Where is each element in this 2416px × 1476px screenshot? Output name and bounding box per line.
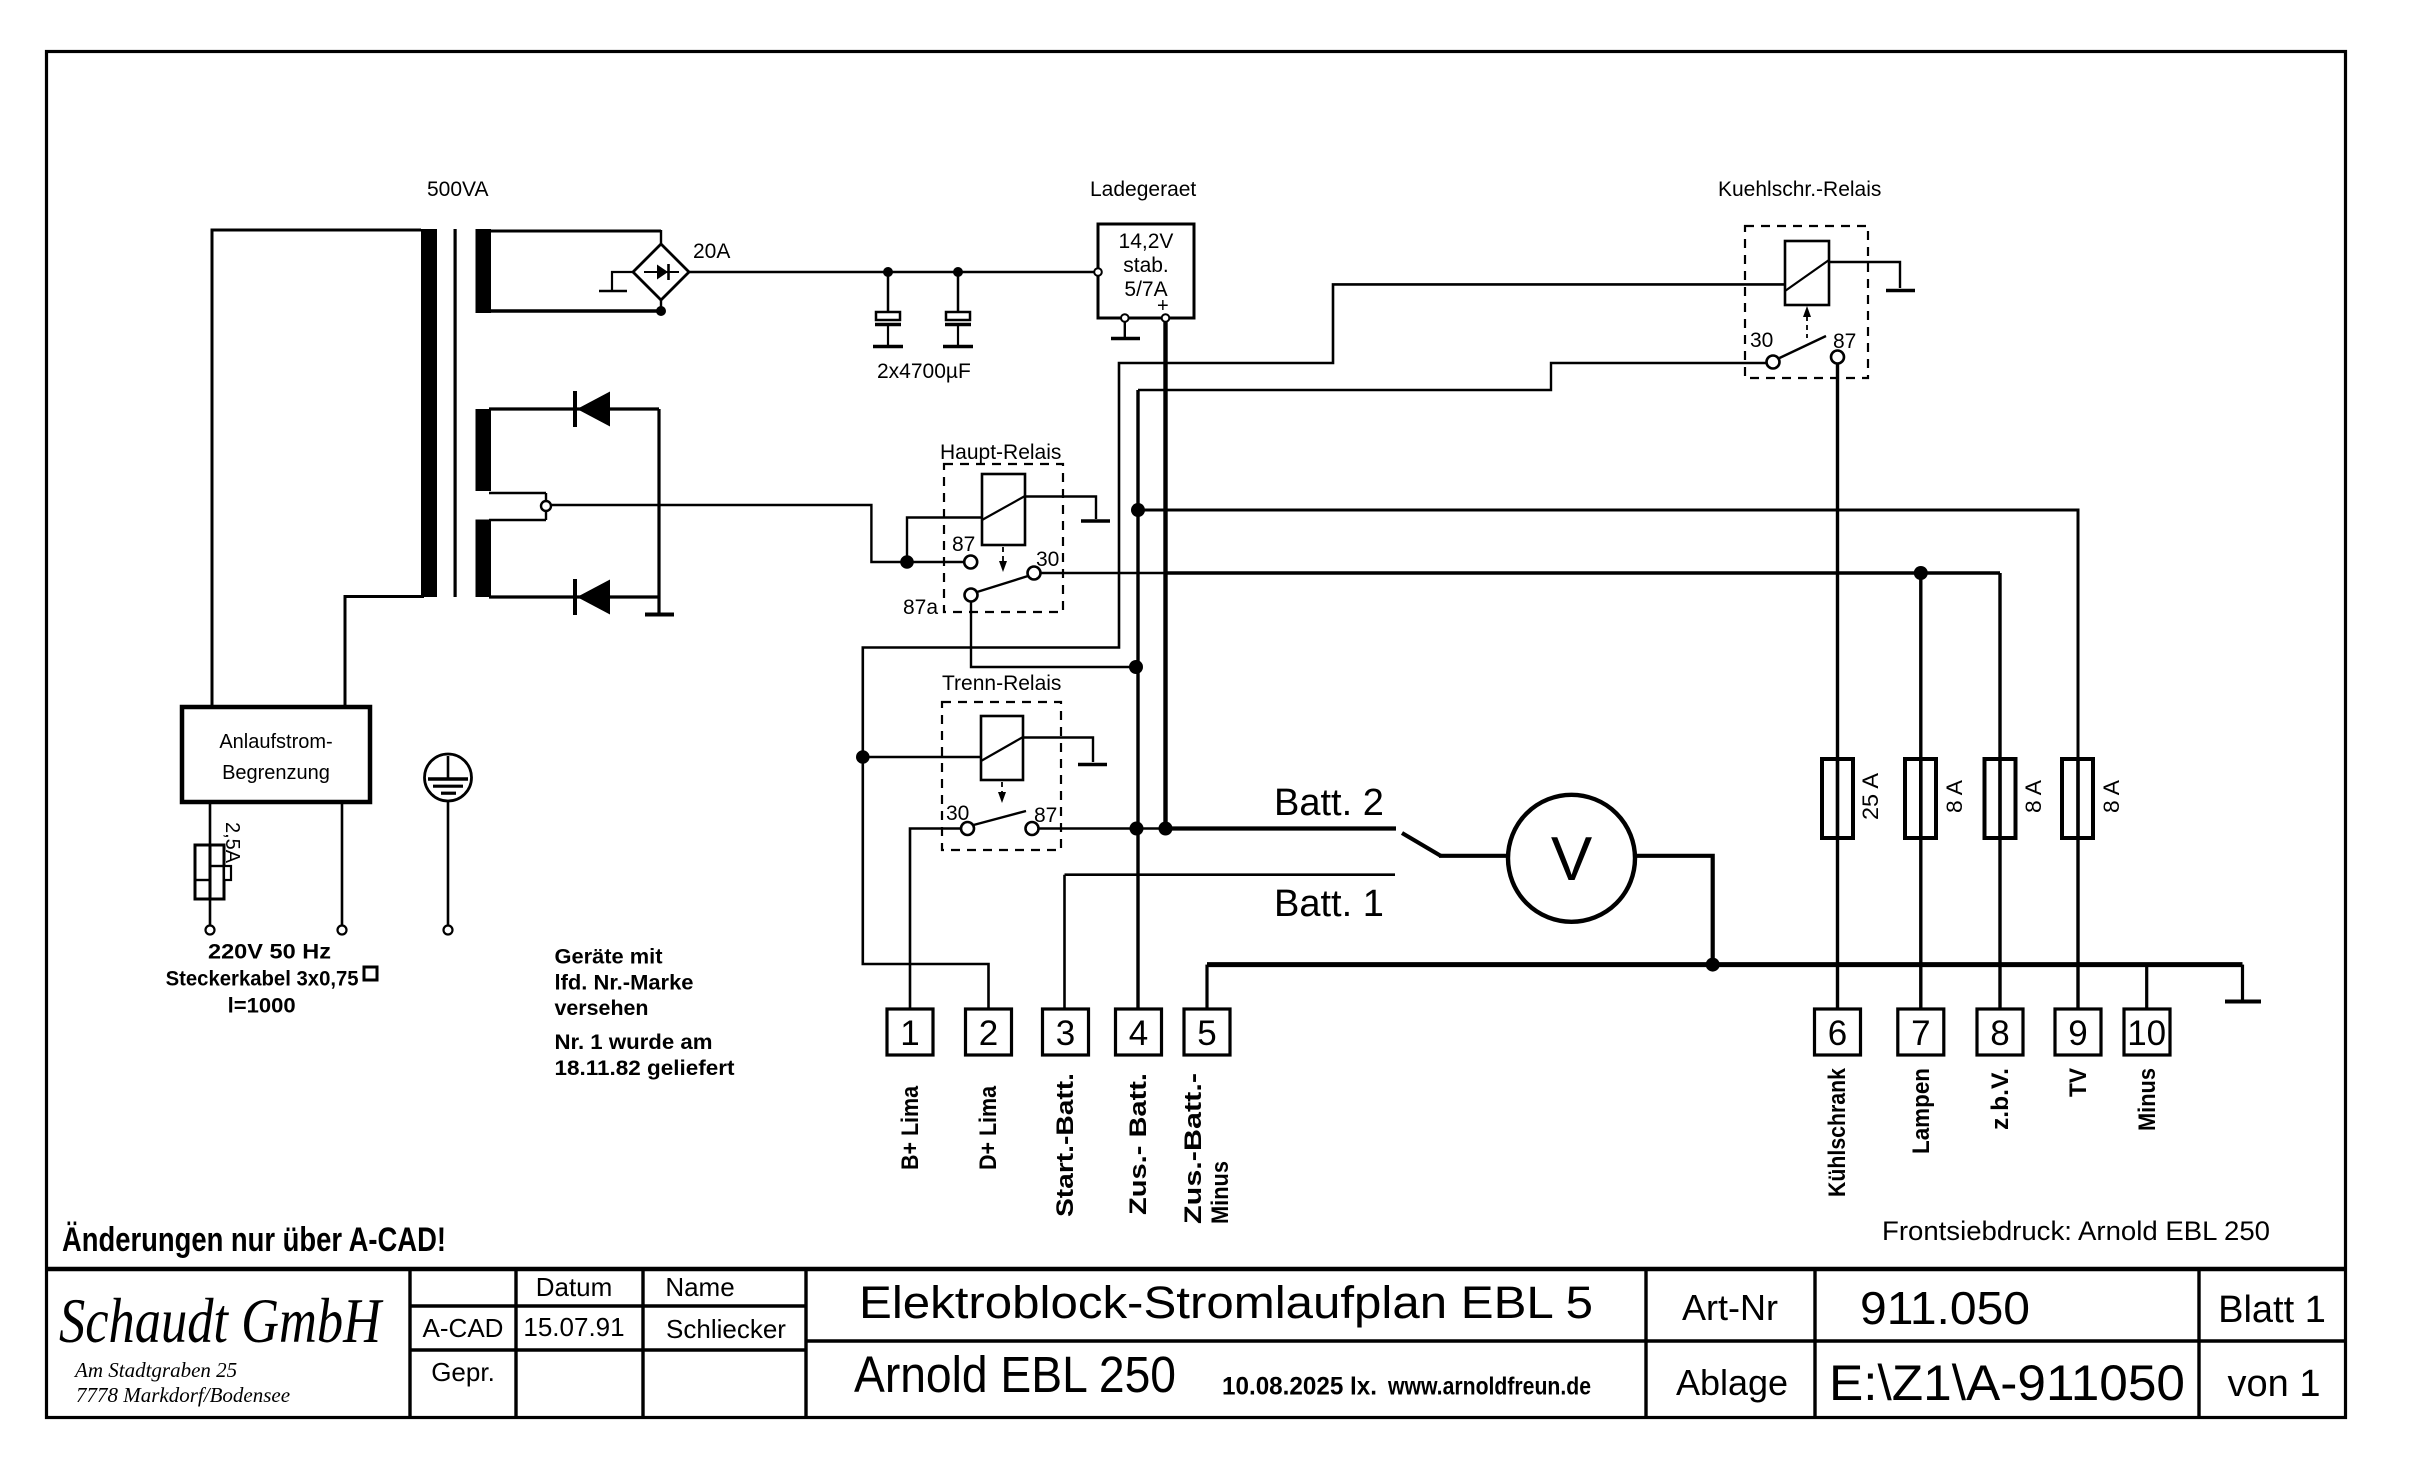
svg-text:20A: 20A bbox=[693, 240, 730, 263]
transformer T1 core bbox=[454, 229, 457, 597]
ground charger bbox=[1124, 322, 1126, 337]
bridge rectifier ground stub bbox=[612, 272, 633, 290]
svg-text:D+ Lima: D+ Lima bbox=[975, 1085, 1002, 1170]
svg-text:Start.-Batt.: Start.-Batt. bbox=[1052, 1073, 1079, 1217]
wire minus bus bbox=[1207, 962, 2243, 967]
node charger plus junction bbox=[1159, 822, 1173, 836]
terminal X7 bbox=[1898, 1009, 1944, 1055]
wire diode cathode bus bbox=[657, 409, 660, 613]
diode D2 wire bbox=[489, 595, 659, 598]
wire Batt 2 bbox=[1166, 826, 1397, 830]
node center tap bbox=[489, 492, 546, 494]
node voltmeter minus junction bbox=[1706, 958, 1720, 972]
node K1 feed junction bbox=[900, 555, 914, 569]
wire to fuse F3 bbox=[1919, 573, 1922, 759]
fuse F5 8A bbox=[2062, 759, 2093, 838]
wire K2 30 to terminal 1 bbox=[910, 829, 961, 1010]
svg-text:2: 2 bbox=[979, 1014, 998, 1053]
svg-text:Steckerkabel 3x0,75: Steckerkabel 3x0,75 bbox=[166, 967, 359, 990]
pin charger input bbox=[1094, 268, 1102, 276]
svg-text:Haupt-Relais: Haupt-Relais bbox=[940, 441, 1061, 464]
charger U1 box bbox=[1098, 224, 1194, 318]
diode D1 bbox=[573, 391, 577, 427]
svg-text:10.08.2025 lx.: 10.08.2025 lx. bbox=[1222, 1373, 1377, 1401]
relay K2 actuator arrow bbox=[1001, 782, 1003, 794]
ground minus bus bbox=[2241, 965, 2244, 1000]
relay K2 coil bbox=[981, 716, 1023, 780]
diode D2 bbox=[573, 579, 577, 615]
svg-text:6: 6 bbox=[1828, 1014, 1847, 1053]
svg-text:30: 30 bbox=[1750, 329, 1773, 352]
pin mains PE bbox=[447, 801, 450, 926]
pin charger minus bbox=[1121, 314, 1129, 322]
wire fuse F2 to terminal 6 bbox=[1836, 838, 1839, 1009]
wire K3 87 to fuse F2 bbox=[1836, 364, 1839, 760]
bridge rectifier GR1 bbox=[633, 244, 689, 300]
wire mains L to fuse bbox=[209, 802, 212, 845]
svg-text:z.b.V.: z.b.V. bbox=[1987, 1068, 2014, 1130]
svg-text:10: 10 bbox=[2127, 1014, 2166, 1053]
ground rectifier bbox=[645, 613, 674, 617]
svg-text:Arnold EBL 250: Arnold EBL 250 bbox=[854, 1346, 1176, 1403]
svg-text:Geräte mit: Geräte mit bbox=[555, 945, 663, 968]
svg-text:Begrenzung: Begrenzung bbox=[222, 762, 330, 784]
svg-text:Ladegeraet: Ladegeraet bbox=[1090, 178, 1196, 201]
node Zus-Batt junction bbox=[1130, 822, 1144, 836]
node K1 87a junction bbox=[1129, 660, 1143, 674]
svg-text:500VA: 500VA bbox=[427, 178, 489, 201]
svg-text:8: 8 bbox=[1990, 1014, 2009, 1053]
svg-text:25 A: 25 A bbox=[1858, 773, 1883, 820]
terminal X8 bbox=[1977, 1009, 2023, 1055]
terminal X5 bbox=[1184, 1009, 1230, 1055]
svg-text:3: 3 bbox=[1056, 1014, 1075, 1053]
svg-text:lfd. Nr.-Marke: lfd. Nr.-Marke bbox=[555, 972, 694, 995]
wire fuse F5 to terminal 9 bbox=[2076, 838, 2079, 1009]
svg-text:Anlaufstrom-: Anlaufstrom- bbox=[219, 731, 332, 753]
wire Zus-Batt to K3 30 bbox=[1138, 363, 1767, 390]
ground K2 coil bbox=[1078, 763, 1107, 767]
ground K3 coil bbox=[1886, 289, 1915, 293]
svg-text:Am Stadtgraben 25: Am Stadtgraben 25 bbox=[73, 1358, 237, 1382]
svg-text:Frontsiebdruck: Arnold EBL 250: Frontsiebdruck: Arnold EBL 250 bbox=[1882, 1216, 2270, 1246]
svg-text:8 A: 8 A bbox=[2099, 780, 2124, 813]
fuse F3 8A bbox=[1905, 759, 1936, 838]
svg-text:Zus.-Batt.-: Zus.-Batt.- bbox=[1180, 1073, 1207, 1224]
relay K2 contact arm bbox=[974, 811, 1027, 825]
svg-text:V: V bbox=[1551, 825, 1593, 894]
wire Zus-Batt to fuse F5 bbox=[1138, 510, 2078, 759]
svg-text:Schliecker: Schliecker bbox=[666, 1314, 786, 1344]
svg-text:Art-Nr: Art-Nr bbox=[1682, 1287, 1778, 1328]
node K2 coil feed junction bbox=[856, 750, 870, 764]
wire fuse F3 to terminal 7 bbox=[1919, 838, 1922, 1009]
pin mains N bbox=[341, 802, 344, 926]
terminal X4 bbox=[1116, 1009, 1162, 1055]
earth symbol PE bbox=[425, 754, 472, 801]
svg-text:9: 9 bbox=[2068, 1014, 2087, 1053]
diode D1 wire bbox=[489, 407, 659, 410]
relay K1 dashed enclosure bbox=[944, 464, 1063, 612]
svg-text:TV: TV bbox=[2065, 1068, 2092, 1097]
svg-text:Name: Name bbox=[665, 1272, 734, 1302]
terminal X1 bbox=[887, 1009, 933, 1055]
transformer T1 secondary winding top bar bbox=[476, 229, 492, 313]
node bridge minus junction bbox=[656, 306, 666, 316]
wire K2 coil feed bbox=[863, 756, 981, 758]
terminal X10 bbox=[2124, 1009, 2170, 1055]
svg-text:7778 Markdorf/Bodensee: 7778 Markdorf/Bodensee bbox=[76, 1383, 290, 1407]
relay K3 contact arm bbox=[1780, 336, 1827, 358]
svg-text:Schaudt GmbH: Schaudt GmbH bbox=[59, 1285, 384, 1356]
wire bridge output to charger bbox=[689, 271, 1094, 274]
wire D+ feed to K3 coil bbox=[863, 284, 1785, 1009]
svg-text:14,2V: 14,2V bbox=[1119, 230, 1174, 253]
svg-text:Batt. 1: Batt. 1 bbox=[1274, 883, 1384, 925]
svg-text:2x4700µF: 2x4700µF bbox=[877, 360, 971, 383]
fuse F1 2,5A breaker bbox=[195, 845, 224, 899]
transformer T1 primary bottom wire bbox=[345, 597, 424, 708]
svg-text:18.11.82 geliefert: 18.11.82 geliefert bbox=[555, 1057, 735, 1080]
wire secondary top to bridge bbox=[489, 230, 661, 233]
transformer T1 secondary winding bottom bar bbox=[476, 520, 492, 598]
svg-text:Nr. 1 wurde am: Nr. 1 wurde am bbox=[555, 1031, 713, 1054]
transformer T1 primary winding bar bbox=[421, 229, 437, 597]
transformer T1 secondary winding middle bar bbox=[476, 409, 492, 491]
svg-text:A-CAD: A-CAD bbox=[423, 1313, 504, 1343]
svg-text:Trenn-Relais: Trenn-Relais bbox=[942, 672, 1061, 695]
relay K2 dashed enclosure bbox=[942, 702, 1061, 850]
svg-text:Kühlschrank: Kühlschrank bbox=[1824, 1067, 1851, 1197]
fuse F2 25A bbox=[1822, 759, 1853, 838]
node fuse F3 tap bbox=[1914, 566, 1928, 580]
svg-text:5: 5 bbox=[1197, 1014, 1216, 1053]
svg-text:15.07.91: 15.07.91 bbox=[523, 1312, 624, 1342]
svg-text:von 1: von 1 bbox=[2228, 1363, 2321, 1405]
relay K1 actuator arrow bbox=[1002, 547, 1004, 563]
svg-text:Ablage: Ablage bbox=[1676, 1362, 1788, 1403]
transformer T1 primary wire loop bbox=[212, 230, 421, 707]
svg-text:4: 4 bbox=[1129, 1014, 1148, 1053]
wire Batt 1 bbox=[1065, 873, 1396, 876]
svg-text:Änderungen nur über A-CAD!: Änderungen nur über A-CAD! bbox=[62, 1221, 446, 1259]
wire voltmeter to minus bus bbox=[1635, 856, 1713, 965]
pin mains L bbox=[209, 899, 212, 926]
node capacitor C1 tap bbox=[883, 267, 893, 277]
svg-text:stab.: stab. bbox=[1123, 254, 1169, 277]
wire center tap to Haupt-Relais bbox=[551, 505, 964, 562]
svg-text:l=1000: l=1000 bbox=[228, 995, 296, 1018]
svg-text:Lampen: Lampen bbox=[1908, 1068, 1935, 1154]
wire to fuse F4 bbox=[1998, 573, 2001, 759]
node Zus-Batt TV tap bbox=[1131, 503, 1145, 517]
svg-text:8 A: 8 A bbox=[2021, 780, 2046, 813]
wire charger plus bus bbox=[1163, 322, 1167, 829]
wire K3 coil to ground bbox=[1829, 262, 1900, 288]
svg-text:220V 50 Hz: 220V 50 Hz bbox=[208, 941, 331, 964]
svg-text:7: 7 bbox=[1911, 1014, 1930, 1053]
wire K1 30 output bbox=[1041, 572, 1166, 575]
svg-text:1: 1 bbox=[900, 1014, 919, 1053]
svg-text:www.arnoldfreun.de: www.arnoldfreun.de bbox=[1387, 1373, 1591, 1401]
relay K3 coil bbox=[1785, 241, 1829, 305]
capacitor C1 bbox=[887, 272, 890, 312]
svg-text:Gepr.: Gepr. bbox=[431, 1357, 495, 1387]
svg-text:Blatt 1: Blatt 1 bbox=[2218, 1289, 2326, 1331]
svg-text:Minus: Minus bbox=[1207, 1161, 1234, 1224]
capacitor C2 bbox=[957, 272, 960, 312]
svg-text:Kuehlschr.-Relais: Kuehlschr.-Relais bbox=[1718, 178, 1881, 201]
switch S1 selector blade bbox=[1402, 833, 1441, 856]
wire minus bus to terminal 10 bbox=[2145, 965, 2148, 1009]
wire K2 coil to ground bbox=[1023, 738, 1093, 763]
ground K1 coil bbox=[1081, 519, 1110, 523]
voltmeter P1 bbox=[1508, 795, 1635, 922]
svg-text:2,5A: 2,5A bbox=[221, 822, 243, 864]
svg-text:versehen: versehen bbox=[555, 997, 649, 1020]
wire Zus-Batt bus vertical bbox=[1136, 390, 1139, 1009]
fuse F4 8A bbox=[1985, 759, 2016, 838]
svg-text:911.050: 911.050 bbox=[1860, 1282, 2030, 1334]
relay K3 actuator arrow bbox=[1806, 316, 1808, 338]
wire fuse F4 to terminal 8 bbox=[1998, 838, 2001, 1009]
wire minus bus to terminal 5 bbox=[1205, 965, 1208, 1009]
wire secondary top lower to bridge minus bbox=[489, 309, 661, 312]
pin charger plus output bbox=[1162, 314, 1170, 322]
relay K1 contact arm bbox=[977, 576, 1028, 592]
svg-text:B+ Lima: B+ Lima bbox=[897, 1085, 924, 1170]
svg-text:Zus.- Batt.: Zus.- Batt. bbox=[1125, 1073, 1152, 1215]
wire Batt 1 to terminal 3 bbox=[1063, 875, 1066, 1009]
wire K2 87 to battery bus bbox=[1039, 827, 1166, 830]
svg-text:87: 87 bbox=[952, 533, 975, 556]
wire K1 coil to ground bbox=[1025, 497, 1096, 520]
svg-text:Datum: Datum bbox=[536, 1272, 613, 1302]
relay K1 coil bbox=[982, 474, 1025, 545]
relay K3 dashed enclosure bbox=[1745, 226, 1868, 378]
title block frame bbox=[46, 1267, 2346, 1271]
terminal X9 bbox=[2055, 1009, 2101, 1055]
svg-text:Elektroblock-Stromlaufplan EB: Elektroblock-Stromlaufplan EBL 5 bbox=[859, 1277, 1593, 1328]
svg-text:8 A: 8 A bbox=[1942, 780, 1967, 813]
module Anlaufstrom-Begrenzung bbox=[182, 707, 370, 802]
wire K1 87a to Zus-Batt bus bbox=[971, 602, 1131, 668]
svg-text:Minus: Minus bbox=[2134, 1068, 2161, 1131]
svg-text:Batt. 2: Batt. 2 bbox=[1274, 782, 1384, 824]
terminal X3 bbox=[1043, 1009, 1089, 1055]
svg-text:E:\Z1\A-911050: E:\Z1\A-911050 bbox=[1829, 1355, 2185, 1411]
terminal X2 bbox=[966, 1009, 1012, 1055]
svg-text:87a: 87a bbox=[903, 596, 938, 619]
terminal X6 bbox=[1815, 1009, 1861, 1055]
node capacitor C2 tap bbox=[953, 267, 963, 277]
wire K1 coil feed bbox=[907, 518, 982, 563]
wire switch to voltmeter bbox=[1439, 854, 1509, 858]
